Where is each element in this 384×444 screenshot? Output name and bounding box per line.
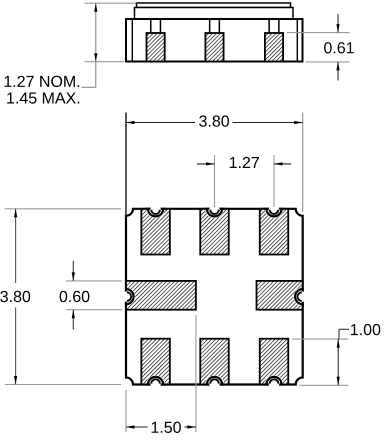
- ground bar right: [257, 281, 303, 310]
- lead 1: [151, 19, 161, 33]
- terminal 1: [147, 33, 165, 62]
- castellation bottom 1: [145, 375, 166, 389]
- dimension 1.50 (ground bar width): [126, 315, 196, 433]
- castellation bottom 2: [204, 375, 225, 389]
- dimension 1.00 (bottom pad height): [292, 324, 380, 385]
- pad 3 (top-right): [260, 209, 289, 255]
- dimension 0.61 (terminal height, side view): [287, 14, 354, 81]
- pad 5 (bottom-center): [200, 339, 229, 385]
- dimension 1.27 (pad pitch): [197, 155, 291, 207]
- dimension 3.80 (top width): [126, 113, 303, 216]
- terminal 3: [265, 33, 283, 62]
- ground bar left: [126, 281, 196, 310]
- castellation top 1: [145, 204, 166, 218]
- castellation right middle: [293, 286, 307, 307]
- castellation top 3: [264, 204, 285, 218]
- lead 2: [210, 19, 220, 33]
- dimension 0.60 (ground bar height): [60, 261, 122, 330]
- body inner wall left: [131, 19, 133, 62]
- lead 3: [269, 19, 279, 33]
- pad 2 (top-center): [200, 209, 229, 255]
- castellation top 2: [204, 204, 225, 218]
- castellation bottom 3: [264, 375, 285, 389]
- pad 1 (top-left): [141, 209, 170, 255]
- dimension 1.27 NOM / 1.45 MAX (package height, side view): [5, 3, 137, 104]
- pad 6 (bottom-right): [260, 339, 289, 385]
- lid flange: [135, 8, 294, 20]
- dimension 3.80 (left height): [0, 209, 121, 385]
- package outline (bottom view): [126, 209, 303, 385]
- pad 4 (bottom-left): [141, 339, 170, 385]
- terminal 2: [205, 33, 223, 62]
- body inner wall right: [296, 19, 298, 62]
- castellation left middle: [122, 286, 136, 307]
- body (side view): [126, 19, 303, 62]
- lid: [137, 3, 291, 8]
